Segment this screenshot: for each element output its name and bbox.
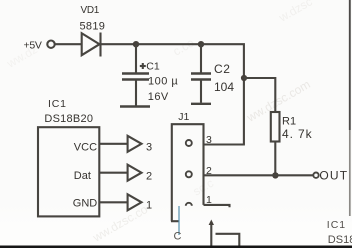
partial letter C (cropped) bbox=[174, 231, 182, 243]
svg-text:C: C bbox=[174, 231, 182, 243]
label pin number 3 bbox=[146, 142, 152, 154]
terminal +5V bbox=[47, 41, 54, 48]
svg-text:IC1: IC1 bbox=[48, 98, 67, 110]
label 100u bbox=[148, 76, 178, 88]
junction node D bbox=[272, 172, 278, 178]
label C1 polarity + bbox=[140, 63, 146, 69]
diode VD1 bbox=[82, 33, 101, 57]
label DS18 (bottom, cropped) bbox=[328, 234, 352, 246]
svg-text:104: 104 bbox=[214, 80, 234, 94]
svg-text:C1: C1 bbox=[146, 60, 160, 72]
label pin number 2 bbox=[146, 171, 152, 183]
pin arrow Dat bbox=[128, 165, 142, 181]
wire J1 pin1 stub bbox=[204, 205, 230, 207]
label J1 pin 1 bbox=[206, 194, 212, 206]
pin arrow VCC bbox=[128, 136, 142, 152]
svg-text:2: 2 bbox=[146, 171, 152, 183]
ground bar (C1) bbox=[120, 105, 150, 107]
label IC1 bbox=[48, 98, 67, 110]
terminal OUT bbox=[313, 173, 318, 178]
label J1 pin 3 bbox=[206, 134, 212, 146]
IC U1 DS18B20 box bbox=[38, 127, 99, 216]
wire VCC pin bbox=[99, 143, 127, 145]
svg-text:J1: J1 bbox=[178, 111, 189, 123]
wire Dat pin bbox=[99, 172, 127, 174]
capacitor C1 bbox=[122, 44, 149, 105]
wire node B to right corner and down to J1 pin3 bbox=[201, 44, 244, 144]
junction node A bbox=[133, 41, 139, 47]
label 104 bbox=[214, 80, 234, 94]
figure bottom border line bbox=[0, 246, 352, 248]
wire J1 pin3 bbox=[204, 143, 245, 145]
svg-text:3: 3 bbox=[146, 142, 152, 154]
label J1 pin 2 bbox=[206, 165, 212, 177]
connector J1 box bbox=[171, 124, 204, 221]
label pin Dat bbox=[74, 170, 91, 182]
label J1 bbox=[178, 111, 189, 123]
svg-text:VD1: VD1 bbox=[81, 5, 100, 16]
wire GND pin bbox=[99, 201, 127, 203]
label VD1 bbox=[81, 5, 100, 16]
svg-text:1: 1 bbox=[146, 199, 152, 211]
capacitor C2 bbox=[191, 44, 211, 103]
resistor R1 bbox=[271, 112, 280, 142]
label R1 bbox=[282, 115, 296, 127]
label pin VCC bbox=[74, 141, 97, 153]
svg-text:+5V: +5V bbox=[24, 40, 42, 52]
blue watermark line bbox=[178, 206, 180, 235]
wire J1 pin2 to OUT bbox=[204, 174, 314, 176]
wire +5V to diode bbox=[55, 43, 81, 45]
junction node B bbox=[198, 41, 204, 47]
partial wire corner below (cropped) bbox=[216, 234, 240, 247]
svg-text:16V: 16V bbox=[148, 91, 169, 103]
svg-text:C2: C2 bbox=[214, 62, 231, 76]
svg-text:OUT: OUT bbox=[319, 169, 348, 183]
J1 contact 1 (half) bbox=[186, 203, 192, 206]
label OUT bbox=[319, 169, 348, 183]
right edge stray wire (cropped) bbox=[349, 0, 351, 130]
svg-text:2: 2 bbox=[206, 165, 212, 177]
svg-text:100 µ: 100 µ bbox=[148, 76, 178, 88]
svg-text:VCC: VCC bbox=[74, 141, 97, 153]
ground bar (C2) bbox=[191, 103, 211, 105]
label IC1 (bottom, cropped) bbox=[327, 219, 346, 231]
wire node A to node B bbox=[136, 43, 201, 45]
wire R1 bottom to node D bbox=[274, 142, 276, 176]
svg-text:DS18: DS18 bbox=[328, 234, 352, 246]
label C1 bbox=[146, 60, 160, 72]
node +5V bbox=[24, 40, 42, 52]
J1 contact 3 bbox=[186, 140, 192, 146]
label 16V bbox=[148, 91, 169, 103]
label pin number 1 bbox=[146, 199, 152, 211]
label 4.7k bbox=[282, 127, 313, 141]
svg-text:5819: 5819 bbox=[80, 21, 106, 33]
svg-text:Dat: Dat bbox=[74, 170, 91, 182]
wire node C to R1 top bbox=[244, 78, 275, 112]
svg-text:4. 7k: 4. 7k bbox=[282, 127, 313, 141]
svg-text:GND: GND bbox=[73, 198, 98, 210]
J1 contact 2 bbox=[186, 171, 192, 177]
partial arrow below (cropped) bbox=[209, 220, 214, 248]
label DS18B20 bbox=[44, 113, 93, 125]
svg-text:DS18B20: DS18B20 bbox=[44, 113, 93, 125]
label pin GND bbox=[73, 198, 98, 210]
label 5819 bbox=[80, 21, 106, 33]
svg-text:IC1: IC1 bbox=[327, 219, 346, 231]
svg-text:R1: R1 bbox=[282, 115, 296, 127]
wire diode to node A bbox=[102, 43, 137, 45]
pin arrow GND bbox=[128, 194, 142, 210]
label C2 bbox=[214, 62, 231, 76]
junction node C bbox=[241, 75, 247, 81]
